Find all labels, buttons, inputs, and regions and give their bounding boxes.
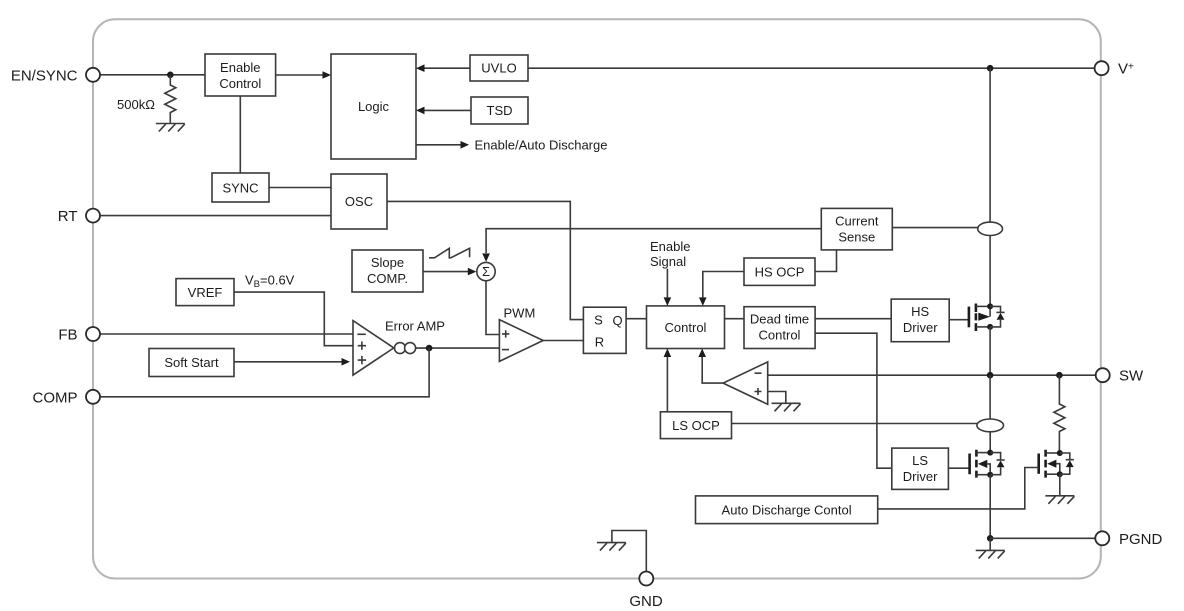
svg-text:VB=0.6V: VB=0.6V <box>245 273 295 291</box>
node SW resistor junction <box>1056 372 1063 379</box>
sense ellipse HS <box>978 222 1003 235</box>
wire EN/SYNC to Enable Control <box>100 74 205 76</box>
wire PWM to R input <box>543 340 583 342</box>
pin GND <box>612 531 646 572</box>
wire LS OCP to Control <box>666 357 668 412</box>
svg-text:V+: V+ <box>1118 61 1134 78</box>
svg-text:Enable/Auto Discharge: Enable/Auto Discharge <box>475 137 608 152</box>
comparator PWM <box>499 320 543 362</box>
svg-text:Soft Start: Soft Start <box>164 355 219 370</box>
transistor discharge MOSFET <box>1037 454 1040 474</box>
rail HS source to SW <box>989 327 991 375</box>
latch SR <box>583 307 626 353</box>
svg-text:Dead time: Dead time <box>750 311 809 326</box>
svg-text:R: R <box>595 334 604 349</box>
block Dead time Control <box>744 307 815 349</box>
node PGND junction <box>987 535 994 542</box>
block LS Driver <box>892 448 949 489</box>
svg-text:PGND: PGND <box>1119 531 1163 548</box>
pin COMP <box>100 348 429 397</box>
wire Current Sense to summer <box>486 229 821 253</box>
block Enable Control <box>205 54 276 96</box>
block Logic <box>331 54 416 159</box>
block HS Driver <box>891 299 949 342</box>
svg-text:COMP: COMP <box>33 389 78 406</box>
wire UVLO to V+ rail <box>528 67 1095 69</box>
svg-text:SYNC: SYNC <box>222 181 258 196</box>
svg-text:Error AMP: Error AMP <box>385 319 445 334</box>
svg-text:HS OCP: HS OCP <box>755 265 805 280</box>
block TSD <box>471 97 528 124</box>
body diode HS <box>990 306 1000 327</box>
wire SYNC to OSC <box>269 187 331 189</box>
svg-text:Control: Control <box>219 76 261 91</box>
svg-text:Driver: Driver <box>903 320 938 335</box>
ground at comparator <box>772 403 801 411</box>
svg-text:Σ: Σ <box>482 264 490 279</box>
wire Control to Dead time Control <box>725 318 745 320</box>
comparator LS OCP sense <box>723 362 768 404</box>
body diode discharge MOSFET <box>1060 453 1070 474</box>
wire error amp output to PWM - input <box>416 347 500 349</box>
svg-text:Control: Control <box>759 327 801 342</box>
svg-text:Slope: Slope <box>371 255 404 270</box>
op-amp Error AMP <box>353 321 394 376</box>
rail ellipse to HS drain <box>989 236 991 307</box>
wire Enable Control to SYNC <box>239 96 241 173</box>
resistor SW discharge <box>1054 375 1065 453</box>
wire Slope COMP to summer <box>423 271 468 273</box>
wire Auto Discharge to gate <box>878 468 1039 509</box>
svg-text:SW: SW <box>1119 368 1144 385</box>
svg-text:RT: RT <box>58 208 78 225</box>
ground at GND pin <box>597 543 626 551</box>
pin V+ <box>1095 61 1109 75</box>
wire Current Sense to sense ellipse <box>892 227 977 229</box>
current source circles at error amp output <box>395 343 406 354</box>
svg-text:500kΩ: 500kΩ <box>117 97 155 112</box>
block HS OCP <box>744 258 815 285</box>
wire HS Driver to gate <box>949 319 969 321</box>
rail ellipse to LS drain <box>989 432 991 453</box>
wire OSC to S input of latch <box>387 201 583 319</box>
wire Enable Control to Logic <box>276 74 323 76</box>
pin EN/SYNC <box>86 68 100 82</box>
svg-text:EN/SYNC: EN/SYNC <box>11 67 78 84</box>
pin PGND <box>1095 531 1109 545</box>
wire HS OCP to Control <box>703 272 744 298</box>
block LS OCP <box>660 412 731 439</box>
wire UVLO to Logic <box>424 67 470 69</box>
svg-text:Q: Q <box>612 313 622 328</box>
wire Soft Start to error amp <box>234 361 342 363</box>
wire HS OCP to Current Sense <box>815 250 837 272</box>
svg-text:OSC: OSC <box>345 194 373 209</box>
block SYNC <box>212 173 269 202</box>
ground under discharge MOSFET <box>1059 474 1061 495</box>
svg-text:PWM: PWM <box>504 305 536 320</box>
summer sigma <box>477 262 495 280</box>
pin RT <box>100 215 331 217</box>
wire LS OCP to sense ellipse <box>732 423 978 425</box>
svg-text:S: S <box>594 313 603 328</box>
block Control <box>647 306 725 349</box>
block Slope COMP <box>352 250 423 292</box>
wire Logic to Enable/Auto Discharge <box>416 144 461 146</box>
wire summer to PWM + input <box>486 281 499 335</box>
svg-text:Auto Discharge Contol: Auto Discharge Contol <box>722 502 852 517</box>
svg-text:Logic: Logic <box>358 99 390 114</box>
svg-text:Driver: Driver <box>903 469 938 484</box>
svg-text:Control: Control <box>665 320 707 335</box>
block OSC <box>331 174 387 229</box>
rail LS source to PGND <box>989 475 991 539</box>
body diode LS <box>990 453 1000 475</box>
block Auto Discharge Contol <box>696 496 878 524</box>
wire Enable Signal to Control <box>666 269 668 298</box>
wire PGND <box>990 537 1095 539</box>
rail SW to sense ellipse LS <box>989 375 991 419</box>
wire comparator + input to ground <box>768 392 786 403</box>
block Soft Start <box>149 349 234 377</box>
block UVLO <box>470 55 528 81</box>
svg-text:Enable: Enable <box>650 239 690 254</box>
ground under PGND rail <box>989 538 991 550</box>
wire VREF to error amp <box>234 292 353 346</box>
svg-text:VREF: VREF <box>188 285 223 300</box>
svg-text:TSD: TSD <box>487 103 513 118</box>
block VREF <box>176 279 234 306</box>
wire Q output to Control <box>626 318 646 320</box>
node SW rail junction <box>987 372 994 379</box>
transistor LS MOSFET <box>968 454 971 475</box>
wire comparator output to Control <box>702 357 723 383</box>
svg-text:Enable: Enable <box>220 60 260 75</box>
IC boundary <box>93 19 1101 578</box>
svg-text:HS: HS <box>911 304 929 319</box>
svg-text:LS OCP: LS OCP <box>672 418 720 433</box>
svg-text:COMP.: COMP. <box>367 271 408 286</box>
rail V+ to sense ellipse <box>989 68 991 222</box>
block Current Sense <box>821 208 892 250</box>
wire Dead time to HS Driver <box>815 318 891 320</box>
svg-text:FB: FB <box>58 327 77 344</box>
svg-text:Sense: Sense <box>838 229 875 244</box>
node V+ junction <box>987 65 994 72</box>
pin FB <box>100 333 353 335</box>
svg-text:UVLO: UVLO <box>481 61 516 76</box>
sense ellipse LS <box>977 419 1004 432</box>
svg-text:LS: LS <box>912 453 928 468</box>
ground under resistor <box>156 124 185 132</box>
sawtooth waveform <box>429 248 470 257</box>
resistor 500k <box>165 75 176 123</box>
wire SW line <box>768 374 1096 376</box>
node EN/SYNC junction <box>167 72 174 79</box>
svg-text:Current: Current <box>835 213 879 228</box>
transistor HS MOSFET <box>968 307 971 328</box>
pin SW <box>1096 368 1110 382</box>
wire LS Driver to gate <box>948 467 969 469</box>
node COMP junction <box>426 345 433 352</box>
wire TSD to Logic <box>424 109 471 111</box>
svg-text:GND: GND <box>629 593 663 610</box>
wire Dead time to LS Driver <box>815 333 892 468</box>
svg-text:Signal: Signal <box>650 254 686 269</box>
